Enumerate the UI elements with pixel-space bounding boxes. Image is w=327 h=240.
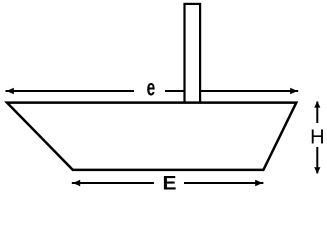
svg-text:E: E — [163, 174, 177, 194]
dimension line H (height) — [310, 101, 324, 173]
trapezoid vessel body — [7, 103, 296, 170]
svg-text:H: H — [310, 127, 324, 149]
dimension line E (bottom width) — [72, 174, 264, 195]
arrowhead left of E — [73, 180, 80, 186]
arrowhead right of E — [255, 180, 262, 186]
arrowhead left of e — [7, 88, 14, 94]
svg-text:e: e — [147, 74, 156, 100]
arrowhead right of e — [290, 88, 297, 94]
dimension line e (top width) — [6, 74, 299, 100]
tab (stem) on top — [185, 4, 201, 103]
arrowhead top of H — [314, 101, 320, 107]
arrowhead bottom of H — [314, 167, 320, 173]
